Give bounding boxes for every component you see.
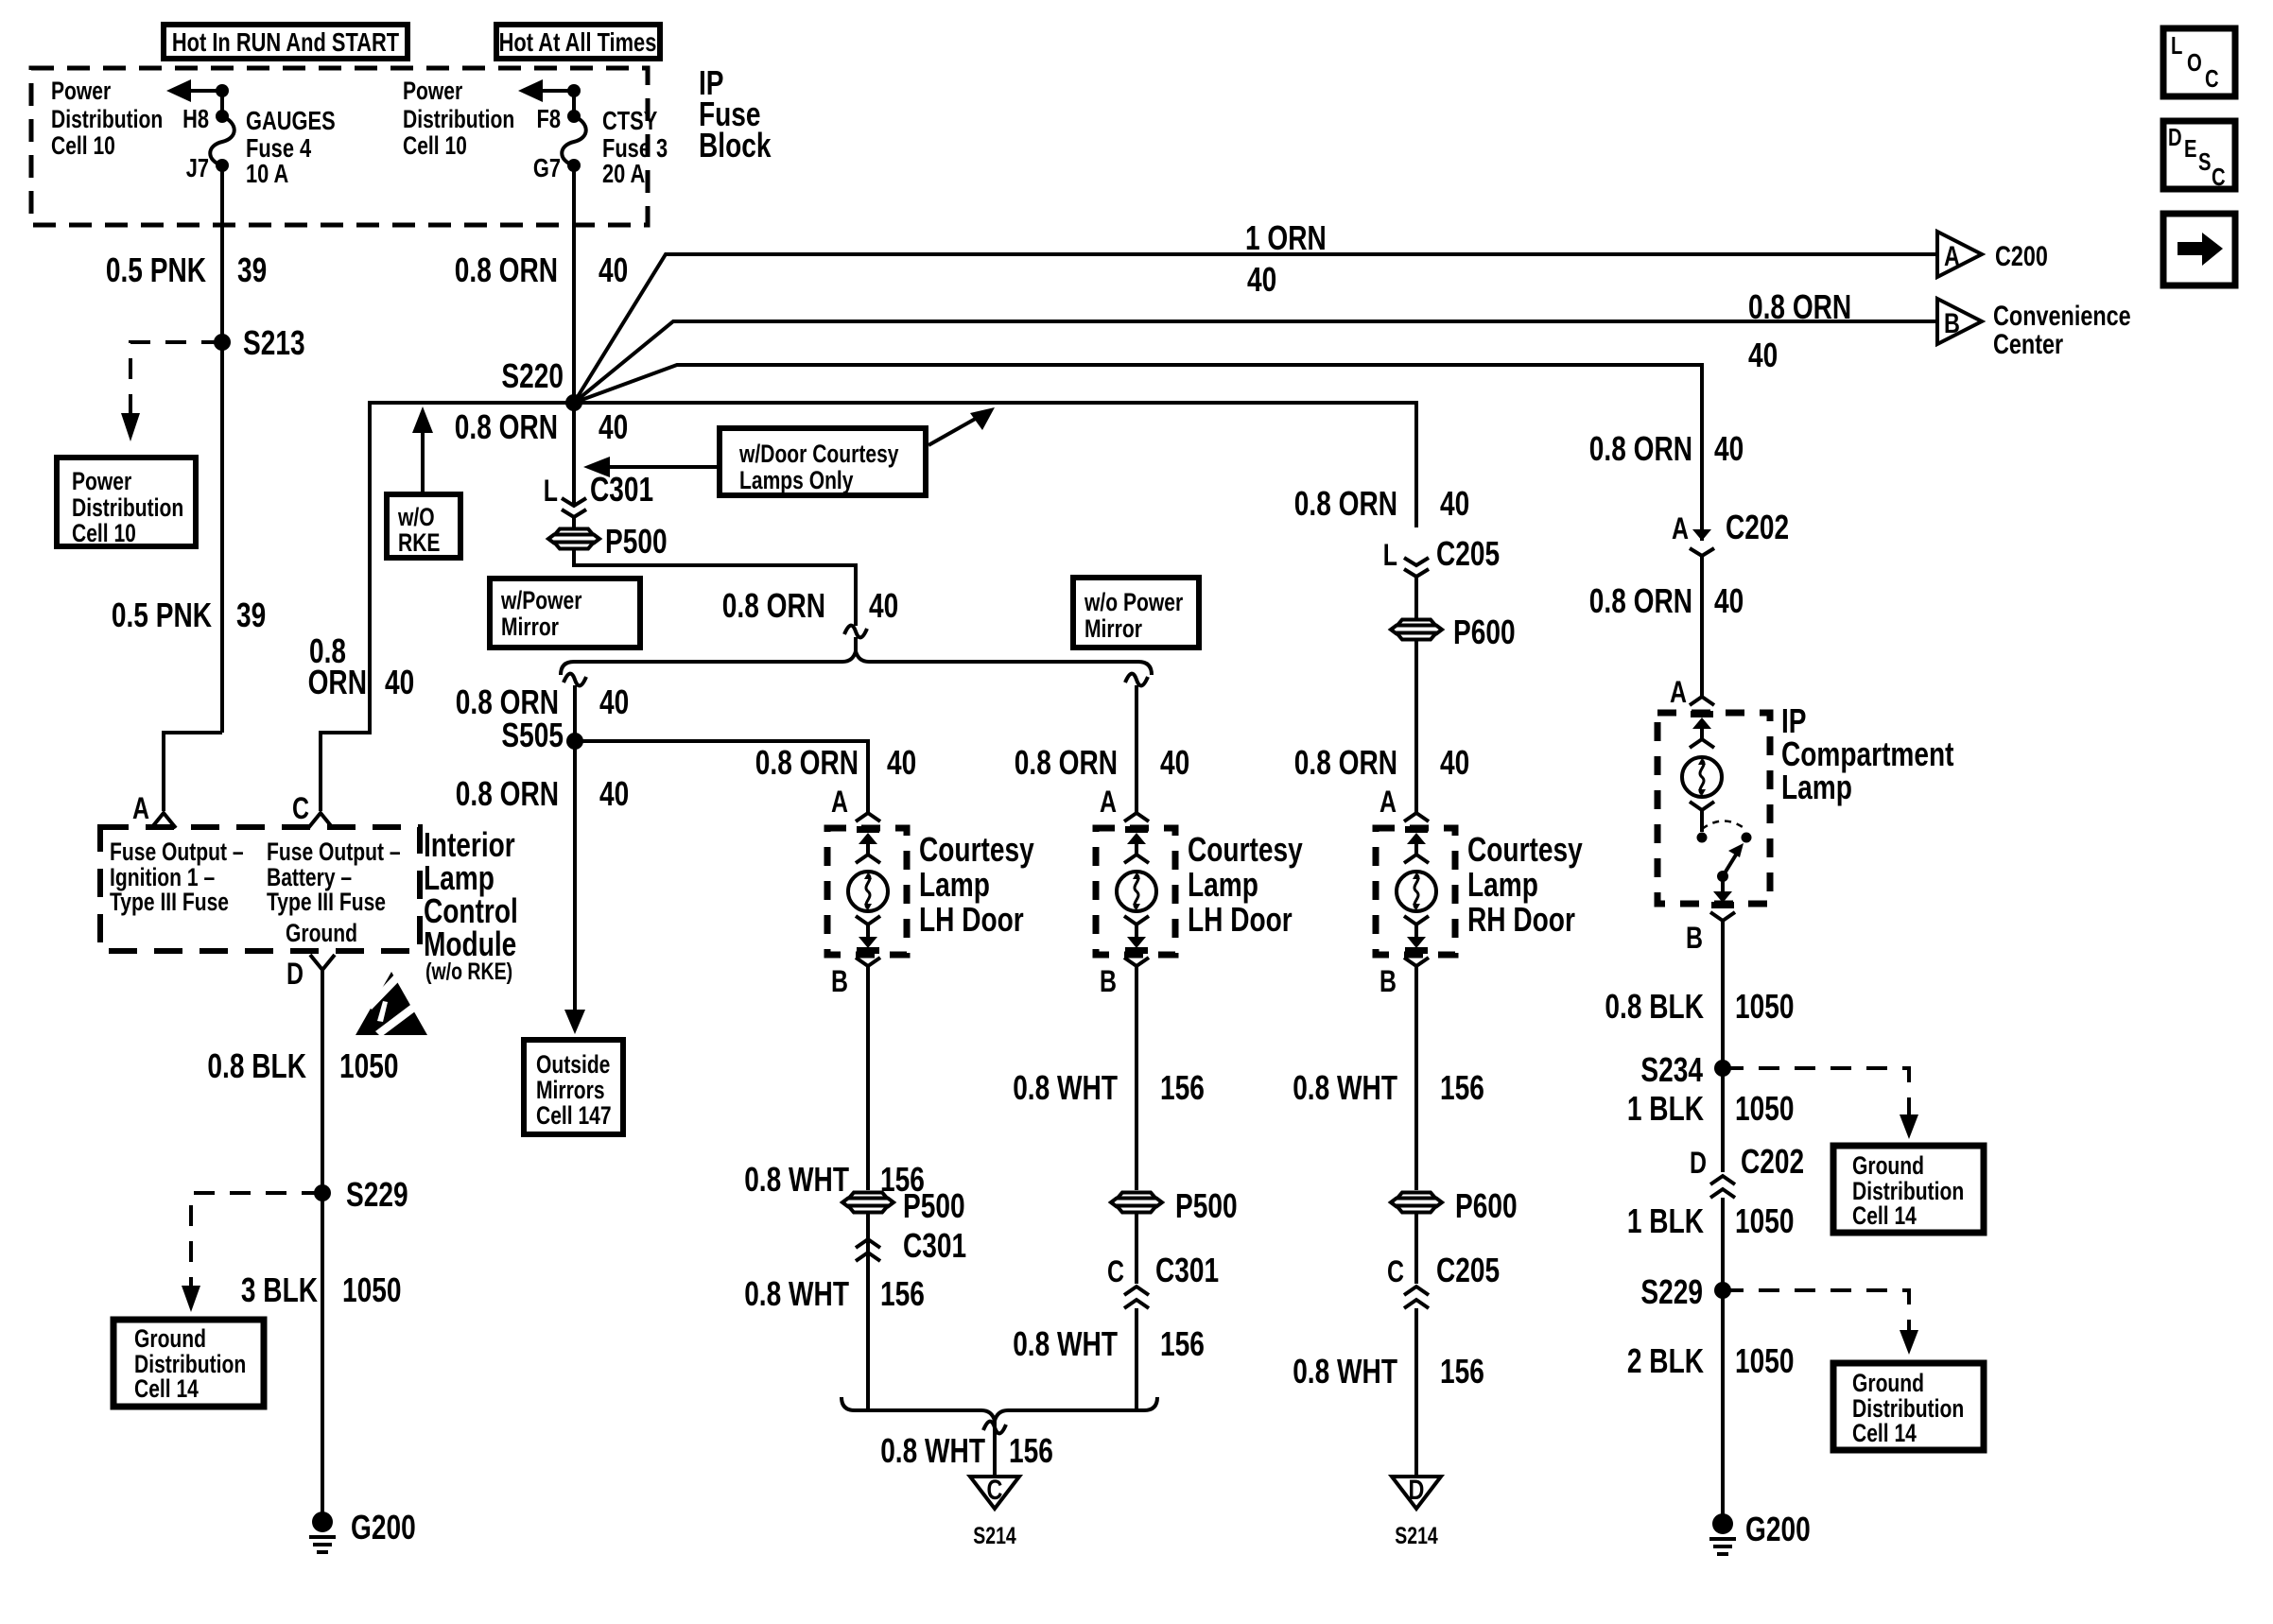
svg-text:Type III Fuse: Type III Fuse <box>267 888 386 916</box>
svg-text:Power: Power <box>403 77 463 105</box>
svg-text:40: 40 <box>599 774 629 813</box>
node H8 <box>216 110 229 123</box>
svg-text:S213: S213 <box>243 323 305 362</box>
svg-text:2 BLK: 2 BLK <box>1627 1341 1704 1380</box>
svg-text:C: C <box>2205 64 2219 93</box>
svg-text:156: 156 <box>1160 1068 1205 1107</box>
svg-text:Lamps Only: Lamps Only <box>739 466 854 494</box>
w/O RKE tag box <box>387 494 460 558</box>
svg-text:S229: S229 <box>1640 1272 1703 1311</box>
forward arrow box <box>2163 214 2235 285</box>
svg-text:1050: 1050 <box>1735 1341 1795 1380</box>
grommet P500 (lamp1) <box>842 1186 966 1265</box>
splice S234 <box>1640 1050 1731 1089</box>
wire label 0.8 ORN 40 (lamp3) <box>1294 743 1469 782</box>
svg-text:3 BLK: 3 BLK <box>241 1270 318 1309</box>
svg-text:O: O <box>2187 48 2202 77</box>
connector D chevron <box>310 955 335 970</box>
wire label 0.8 ORN 40 (module C feed) <box>308 631 415 701</box>
svg-text:B: B <box>1686 921 1703 955</box>
svg-text:S214: S214 <box>973 1523 1016 1549</box>
wire IP lamp B down to S234 <box>1721 921 1725 1068</box>
connector A chevron <box>151 813 176 828</box>
connector B chevron lamp2 <box>1124 958 1149 966</box>
svg-text:0.8 ORN: 0.8 ORN <box>455 251 558 289</box>
callout arrow up-right to fan line 4 <box>928 407 995 445</box>
svg-text:Courtesy: Courtesy <box>1467 830 1583 869</box>
svg-text:ORN: ORN <box>308 663 367 701</box>
fuse CTSY Fuse 3 20 A <box>562 106 668 188</box>
IP compartment lamp dashed box <box>1657 713 1770 904</box>
svg-text:0.8 ORN: 0.8 ORN <box>456 774 559 813</box>
wire size change squiggle <box>844 626 867 638</box>
wire lamp1 to merge brace <box>866 1264 870 1410</box>
wire jog to module pin A <box>164 733 222 811</box>
svg-text:Cell 10: Cell 10 <box>403 131 467 160</box>
IP Fuse Block label <box>699 63 772 164</box>
wire fan line 2 to Convenience Center <box>574 321 1937 403</box>
wire S220 down to C301 <box>572 403 576 506</box>
wire label 0.8 WHT 156 (lamp3 lower) <box>1293 1352 1484 1391</box>
svg-text:C202: C202 <box>1741 1142 1804 1181</box>
connector C chevron <box>308 813 333 828</box>
svg-text:0.8 WHT: 0.8 WHT <box>744 1160 849 1199</box>
svg-text:Distribution: Distribution <box>403 105 514 133</box>
wire size change squiggle (merge) <box>983 1421 1006 1477</box>
IP fuse block dashed box <box>31 68 648 225</box>
connector C301 chevrons (lamp1) <box>856 1213 880 1264</box>
Power Distribution Cell 10 text (left) <box>51 77 163 160</box>
box Ground Distribution Cell 14 (lower right) <box>1833 1363 1984 1450</box>
connector triangle C to S214 <box>970 1475 1019 1549</box>
connector A chevron lamp3 <box>1404 813 1429 821</box>
wire P600 down to lamp3 <box>1414 640 1418 813</box>
svg-text:Module: Module <box>424 924 516 963</box>
wire fuse3 G7 down to S220 <box>572 165 576 403</box>
svg-text:S229: S229 <box>346 1175 408 1214</box>
grommet P500 (lamp2) <box>1111 1186 1238 1225</box>
wire S505 right to lamp 1 <box>575 741 868 813</box>
svg-text:RKE: RKE <box>398 528 441 557</box>
svg-text:1050: 1050 <box>1735 987 1795 1026</box>
wire lamp3 B down to P600 <box>1414 966 1418 1190</box>
ground G200 (left) <box>309 1508 416 1552</box>
svg-text:A: A <box>1944 241 1960 272</box>
module pin text Fuse Output Ignition <box>110 838 244 916</box>
svg-text:Power: Power <box>72 467 132 495</box>
svg-text:Ground: Ground <box>134 1324 206 1353</box>
connector triangle D to S214 <box>1392 1475 1441 1549</box>
splice S213 <box>214 323 305 362</box>
fuse 1 feed arrow to Power Distribution <box>166 79 229 116</box>
splice S229 (right) <box>1640 1272 1731 1311</box>
lamp2 name Courtesy Lamp LH Door <box>1188 830 1303 939</box>
desc box <box>2163 121 2235 191</box>
fuse GAUGES Fuse 4 10 A <box>210 106 335 188</box>
wire label 0.8 BLK 1050 <box>207 1046 398 1085</box>
svg-text:C205: C205 <box>1436 1251 1500 1289</box>
tag box w/Power Mirror <box>490 579 640 648</box>
svg-text:Ground: Ground <box>1852 1369 1924 1397</box>
lamp3 name Courtesy Lamp RH Door <box>1467 830 1583 939</box>
ground G200 (right) <box>1709 1510 1811 1554</box>
svg-text:40: 40 <box>385 663 414 701</box>
svg-text:Cell 147: Cell 147 <box>536 1101 612 1130</box>
svg-text:H8: H8 <box>182 104 209 133</box>
svg-text:Distribution: Distribution <box>51 105 163 133</box>
svg-text:156: 156 <box>1009 1431 1053 1470</box>
svg-text:39: 39 <box>236 596 266 634</box>
wire lamp2 B down to P500 <box>1135 966 1138 1190</box>
wire fan line 3 to C202 column <box>574 365 1702 515</box>
svg-text:P600: P600 <box>1453 613 1516 651</box>
svg-text:40: 40 <box>1247 260 1276 299</box>
svg-text:w/O: w/O <box>397 503 434 531</box>
connector triangle A C200 <box>1937 232 2048 277</box>
svg-text:C: C <box>987 1475 1003 1506</box>
svg-text:Ground: Ground <box>286 919 357 947</box>
grommet P600 (lamp3 lower) <box>1391 1186 1518 1225</box>
wire fan line 1 to C200 <box>574 254 1937 403</box>
svg-text:Cell 14: Cell 14 <box>1852 1419 1917 1447</box>
svg-text:0.8 ORN: 0.8 ORN <box>1589 429 1692 468</box>
svg-text:0.8 WHT: 0.8 WHT <box>1013 1324 1118 1363</box>
svg-text:RH Door: RH Door <box>1467 900 1575 939</box>
svg-text:B: B <box>1100 964 1117 998</box>
svg-text:LH Door: LH Door <box>1188 900 1293 939</box>
svg-text:156: 156 <box>1440 1352 1484 1391</box>
wire brace left branch down to S505 <box>564 674 586 741</box>
svg-text:40: 40 <box>1748 336 1778 374</box>
lamp2 bottom pin <box>1124 916 1149 954</box>
svg-text:D: D <box>286 957 304 991</box>
splice S505 <box>501 716 583 754</box>
connector A chevron IP lamp <box>1690 697 1714 705</box>
svg-text:40: 40 <box>599 407 628 446</box>
svg-text:G7: G7 <box>533 153 561 182</box>
svg-text:1 BLK: 1 BLK <box>1627 1201 1704 1240</box>
svg-text:Distribution: Distribution <box>72 493 183 522</box>
wire label 0.8 WHT 156 (lamp1) <box>744 1160 925 1199</box>
svg-text:0.8 ORN: 0.8 ORN <box>1294 484 1397 523</box>
svg-text:40: 40 <box>1440 743 1469 782</box>
grommet P500 <box>548 522 668 561</box>
wire label 0.8 WHT 156 (lamp2 lower) <box>1013 1324 1205 1363</box>
wire module D down to S229 <box>321 970 324 1193</box>
svg-text:S505: S505 <box>501 716 564 754</box>
svg-text:Cell 14: Cell 14 <box>134 1374 199 1403</box>
connector A chevron lamp1 <box>856 813 880 821</box>
lamp2 top pin <box>1124 826 1149 863</box>
svg-text:Convenience: Convenience <box>1993 301 2131 332</box>
lamp1 bulb <box>848 872 888 911</box>
svg-text:40: 40 <box>1714 581 1744 620</box>
svg-text:Hot At All Times: Hot At All Times <box>499 27 657 57</box>
svg-text:C301: C301 <box>903 1226 966 1265</box>
svg-text:P500: P500 <box>605 522 668 561</box>
svg-text:B: B <box>1944 308 1960 339</box>
wire label 0.8 WHT 156 (merged) <box>880 1431 1053 1470</box>
courtesy lamp RH door dashed box <box>1376 828 1455 955</box>
wire P500 down and right to options brace <box>574 549 856 626</box>
connector triangle B Convenience Center <box>1937 299 2131 360</box>
svg-text:Lamp: Lamp <box>919 865 990 904</box>
svg-text:Courtesy: Courtesy <box>919 830 1034 869</box>
label box "Hot At All Times" <box>496 25 660 59</box>
dashed reference from S234 to Ground Distribution <box>1723 1068 1918 1139</box>
lamp1 name Courtesy Lamp LH Door <box>919 830 1034 939</box>
ESD sensitivity symbol <box>356 972 427 1037</box>
svg-text:GAUGES: GAUGES <box>246 106 336 135</box>
svg-text:Cell 14: Cell 14 <box>1852 1201 1917 1230</box>
wire S229 down to G200 <box>1721 1290 1725 1524</box>
svg-text:40: 40 <box>887 743 916 782</box>
box Outside Mirrors Cell 147 <box>524 1040 623 1134</box>
connector B chevron lamp3 <box>1404 958 1429 966</box>
module name Interior Lamp Control Module (w/o RKE) <box>424 825 518 985</box>
svg-text:0.8 WHT: 0.8 WHT <box>1013 1068 1118 1107</box>
fuse 2 feed arrow to Power Distribution <box>518 79 581 116</box>
dashed reference from S213 to Power Distribution Cell 10 <box>121 342 222 441</box>
svg-text:40: 40 <box>869 586 898 625</box>
wire fan line 4 to RH door column <box>574 403 1416 527</box>
svg-text:0.8 WHT: 0.8 WHT <box>1293 1352 1397 1391</box>
dashed reference from S229 to Ground Distribution <box>1723 1290 1918 1355</box>
wire label 0.8 WHT 156 (lamp2) <box>1013 1068 1205 1107</box>
splice S229 <box>314 1175 408 1214</box>
node J7 <box>216 159 229 172</box>
svg-text:Courtesy: Courtesy <box>1188 830 1303 869</box>
svg-text:A: A <box>831 785 848 819</box>
options brace (top) <box>561 651 1152 675</box>
callout arrow left to trunk <box>583 457 720 477</box>
wire lamp3 down to S214 triangle <box>1414 1308 1418 1477</box>
connector A chevron lamp2 <box>1124 813 1149 821</box>
module pin text Fuse Output Battery <box>267 838 401 916</box>
IP lamp name <box>1781 701 1954 806</box>
svg-text:Type III Fuse: Type III Fuse <box>110 888 229 916</box>
svg-text:w/o Power: w/o Power <box>1084 588 1183 616</box>
svg-text:40: 40 <box>599 251 628 289</box>
svg-text:LH Door: LH Door <box>919 900 1024 939</box>
IP lamp switch <box>1690 802 1752 882</box>
svg-text:Cell 10: Cell 10 <box>72 519 136 547</box>
lamp1 bottom pin <box>856 916 880 954</box>
svg-text:J7: J7 <box>186 153 209 182</box>
connector D C202 <box>1690 1142 1804 1198</box>
svg-text:40: 40 <box>1440 484 1469 523</box>
svg-text:0.8 ORN: 0.8 ORN <box>455 407 558 446</box>
connector C C301 (lamp2) <box>1107 1213 1219 1308</box>
svg-text:E: E <box>2184 134 2197 163</box>
node F8 <box>567 110 581 123</box>
svg-text:0.8 ORN: 0.8 ORN <box>1015 743 1118 782</box>
splice S220 <box>501 356 582 411</box>
wire label 0.8 ORN 40 <box>455 251 628 289</box>
svg-text:Mirror: Mirror <box>501 613 559 641</box>
courtesy lamp LH door 1 dashed box <box>827 828 907 955</box>
svg-text:Block: Block <box>699 126 772 164</box>
svg-text:40: 40 <box>1160 743 1189 782</box>
svg-text:Mirrors: Mirrors <box>536 1076 605 1104</box>
lamp1 top pin <box>856 826 880 863</box>
wire label 1 BLK 1050 <box>1627 1089 1795 1128</box>
merge brace (bottom) <box>842 1397 1157 1421</box>
svg-text:0.8 WHT: 0.8 WHT <box>1293 1068 1397 1107</box>
svg-text:A: A <box>1100 785 1117 819</box>
dashed reference from S229 to Ground Distribution <box>182 1193 322 1312</box>
wire label 0.8 ORN 40 (below S505) <box>456 774 629 813</box>
wire C202 down to S229 <box>1721 1198 1725 1290</box>
svg-text:Cell 10: Cell 10 <box>51 131 115 160</box>
wire label 0.8 ORN 40 (C202 feed) <box>1589 429 1744 468</box>
svg-text:156: 156 <box>1440 1068 1484 1107</box>
svg-text:Lamp: Lamp <box>1188 865 1258 904</box>
svg-text:(w/o RKE): (w/o RKE) <box>425 959 512 985</box>
svg-text:A: A <box>132 791 149 825</box>
svg-text:D: D <box>2168 123 2182 151</box>
wire from S220 level down to module pin C <box>321 403 574 811</box>
wire lamp2 to merge brace <box>1135 1308 1138 1410</box>
wire brace right branch down to lamp2 <box>1125 674 1148 813</box>
svg-text:S220: S220 <box>501 356 564 395</box>
connector A C202 <box>1672 508 1789 697</box>
svg-text:L: L <box>1383 538 1397 572</box>
wire label 2 BLK 1050 <box>1627 1341 1795 1380</box>
wire label 0.8 ORN 40 (IP lamp feed) <box>1589 581 1744 620</box>
svg-text:D: D <box>1690 1146 1707 1180</box>
svg-text:0.8 ORN: 0.8 ORN <box>722 586 825 625</box>
wire label 0.8 BLK 1050 <box>1605 987 1794 1026</box>
box Ground Distribution Cell 14 (lower left) <box>113 1320 264 1407</box>
wire label 3 BLK 1050 <box>241 1270 402 1309</box>
wire label 0.5 PNK 39 <box>106 251 267 289</box>
Power Distribution Cell 10 text (right) <box>403 77 514 160</box>
box Power Distribution Cell 10 (lower left) <box>57 458 196 547</box>
svg-text:S234: S234 <box>1640 1050 1703 1089</box>
svg-text:0.8 ORN: 0.8 ORN <box>1589 581 1692 620</box>
lamp3 bulb <box>1397 872 1436 911</box>
svg-text:0.5 PNK: 0.5 PNK <box>106 251 206 289</box>
svg-text:40: 40 <box>1714 429 1744 468</box>
svg-text:0.8 BLK: 0.8 BLK <box>1605 987 1704 1026</box>
Interior Lamp Control Module dashed box <box>100 827 420 951</box>
svg-text:0.5 PNK: 0.5 PNK <box>112 596 212 634</box>
svg-text:20 A: 20 A <box>602 159 645 188</box>
svg-text:Lamp: Lamp <box>1467 865 1538 904</box>
svg-text:P600: P600 <box>1455 1186 1518 1225</box>
svg-text:1050: 1050 <box>1735 1089 1795 1128</box>
svg-text:Center: Center <box>1993 329 2063 360</box>
grommet P600 <box>1391 613 1516 651</box>
connector C C205 (lamp3) <box>1387 1213 1500 1308</box>
svg-text:C: C <box>1107 1254 1124 1288</box>
label box "Hot In RUN And START" <box>164 25 408 59</box>
wire label 0.8 ORN / 40 <box>1748 287 1851 374</box>
wire lamp1 B down to P500 <box>866 966 870 1190</box>
wire S213 down <box>220 342 224 733</box>
w/O RKE arrow up to wire <box>412 406 433 494</box>
svg-text:G200: G200 <box>1745 1510 1811 1548</box>
svg-text:P500: P500 <box>903 1186 965 1225</box>
svg-text:C200: C200 <box>1995 241 2048 272</box>
wire label 0.8 ORN 40 (above S505) <box>456 682 629 721</box>
courtesy lamp LH door 2 dashed box <box>1096 828 1175 955</box>
wire fuse4 J7 down to S213 <box>220 165 224 342</box>
lamp2 bulb <box>1117 872 1156 911</box>
svg-text:0.8 ORN: 0.8 ORN <box>1748 287 1851 326</box>
svg-text:D: D <box>1409 1475 1425 1506</box>
svg-text:1050: 1050 <box>339 1046 399 1085</box>
loc box <box>2163 28 2235 96</box>
node G7 <box>567 159 581 172</box>
wire S234 down to C202 <box>1721 1068 1725 1172</box>
svg-text:1 ORN: 1 ORN <box>1245 218 1327 257</box>
svg-text:S: S <box>2198 147 2212 176</box>
svg-text:C202: C202 <box>1726 508 1789 546</box>
IP lamp bottom pin <box>1711 876 1734 908</box>
svg-text:S214: S214 <box>1395 1523 1438 1549</box>
wire label 0.5 PNK 39 (lower) <box>112 596 266 634</box>
lamp3 bottom pin <box>1404 916 1429 954</box>
callout box w/Door Courtesy Lamps Only <box>720 428 926 495</box>
svg-text:Fuse Output –: Fuse Output – <box>267 838 401 866</box>
svg-text:C: C <box>2212 163 2226 191</box>
svg-text:C: C <box>1387 1254 1404 1288</box>
connector B chevron IP lamp <box>1710 912 1735 921</box>
svg-text:Mirror: Mirror <box>1084 614 1142 643</box>
tag box w/o Power Mirror <box>1073 578 1199 648</box>
IP lamp bulb <box>1682 757 1722 797</box>
box Ground Distribution Cell 14 (upper right) <box>1833 1146 1984 1233</box>
svg-text:Ground: Ground <box>1852 1151 1924 1180</box>
wire label 0.8 ORN 40 (below S220) <box>455 407 628 446</box>
wire label 0.8 ORN 40 (lamp1 feed) <box>755 743 916 782</box>
svg-text:Power: Power <box>51 77 112 105</box>
svg-text:C301: C301 <box>1155 1251 1219 1289</box>
svg-text:Fuse Output –: Fuse Output – <box>110 838 244 866</box>
svg-text:L: L <box>2171 31 2182 60</box>
svg-text:0.8 WHT: 0.8 WHT <box>744 1274 849 1313</box>
wire label 1 BLK 1050 (lower) <box>1627 1201 1795 1240</box>
svg-text:Hot In RUN And START: Hot In RUN And START <box>172 27 399 57</box>
connector L C301 <box>544 470 653 529</box>
svg-text:39: 39 <box>237 251 267 289</box>
svg-text:C205: C205 <box>1436 534 1500 573</box>
svg-text:0.8 ORN: 0.8 ORN <box>1294 743 1397 782</box>
svg-text:F8: F8 <box>537 104 562 133</box>
svg-text:C301: C301 <box>590 470 653 509</box>
wire S229 down to G200 <box>321 1193 324 1522</box>
connector B chevron lamp1 <box>856 958 880 966</box>
lamp3 top pin <box>1404 826 1429 863</box>
svg-text:G200: G200 <box>351 1508 416 1546</box>
wire label 0.8 WHT 156 (lamp3) <box>1293 1068 1484 1107</box>
svg-text:1 BLK: 1 BLK <box>1627 1089 1704 1128</box>
wire label 0.8 ORN 40 (brace feed) <box>722 586 898 625</box>
svg-text:P500: P500 <box>1175 1186 1238 1225</box>
svg-text:w/Power: w/Power <box>500 586 582 614</box>
svg-text:w/Door Courtesy: w/Door Courtesy <box>738 440 898 468</box>
svg-text:B: B <box>1379 964 1397 998</box>
svg-text:Outside: Outside <box>536 1050 610 1079</box>
svg-text:A: A <box>1379 785 1397 819</box>
svg-text:0.8 ORN: 0.8 ORN <box>755 743 859 782</box>
wire label 0.8 ORN 40 (lamp3 feed) <box>1294 484 1469 523</box>
svg-text:0.8 BLK: 0.8 BLK <box>207 1046 306 1085</box>
IP lamp top pin <box>1690 711 1714 748</box>
svg-text:C: C <box>292 791 309 825</box>
